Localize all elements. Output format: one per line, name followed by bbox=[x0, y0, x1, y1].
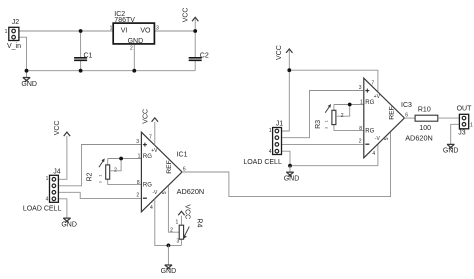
svg-text:5: 5 bbox=[384, 137, 390, 140]
svg-text:RG: RG bbox=[143, 154, 152, 160]
wire J1 pin3 to IC3 -IN pin2 bbox=[282, 143, 364, 145]
wire J4 pin4 to GND bbox=[58, 199, 67, 218]
svg-text:1: 1 bbox=[360, 99, 363, 105]
VCC symbol above IC1 bbox=[142, 109, 158, 124]
svg-text:REF: REF bbox=[166, 160, 173, 174]
node dot J1 ground bbox=[288, 164, 292, 168]
VCC symbol above J1 bbox=[276, 45, 293, 70]
svg-text:VCC: VCC bbox=[142, 109, 149, 124]
op-amp IC1 AD620N triangle bbox=[136, 132, 204, 212]
node RG junction dot R3 bbox=[348, 103, 352, 107]
svg-text:2: 2 bbox=[341, 113, 344, 119]
svg-text:GND: GND bbox=[284, 175, 300, 182]
svg-text:8: 8 bbox=[137, 180, 140, 186]
svg-text:1: 1 bbox=[138, 153, 141, 159]
svg-text:4: 4 bbox=[46, 197, 49, 203]
svg-text:RG: RG bbox=[143, 182, 152, 188]
ground symbol under J1 bbox=[284, 166, 300, 183]
svg-text:2: 2 bbox=[136, 193, 139, 199]
trimmer R3 bbox=[315, 104, 350, 131]
wire J4 pin1 to VCC bbox=[58, 136, 67, 179]
svg-text:J2: J2 bbox=[12, 19, 20, 26]
svg-text:IC3: IC3 bbox=[401, 102, 412, 109]
svg-text:2: 2 bbox=[359, 139, 362, 145]
node RG junction dot R2 bbox=[119, 157, 123, 161]
wire R3 top to IC3 RG pin1 bbox=[334, 104, 364, 106]
svg-text:1: 1 bbox=[176, 219, 179, 225]
connector J4 bbox=[46, 168, 61, 202]
svg-text:3: 3 bbox=[359, 85, 362, 91]
svg-text:VCC: VCC bbox=[182, 8, 189, 23]
svg-text:RG: RG bbox=[365, 100, 374, 106]
op-amp IC3 AD620N triangle bbox=[359, 78, 433, 158]
ground symbol under J2 bbox=[21, 71, 37, 88]
connector J3 bbox=[457, 106, 473, 137]
connector J2 bbox=[5, 19, 20, 40]
svg-text:LOAD CELL: LOAD CELL bbox=[23, 206, 62, 213]
svg-text:3: 3 bbox=[325, 127, 329, 129]
svg-text:IC1: IC1 bbox=[177, 152, 188, 159]
wire VCC to IC3 pin7 +V bbox=[289, 70, 378, 92]
svg-text:LOAD CELL: LOAD CELL bbox=[243, 159, 282, 166]
svg-text:1: 1 bbox=[98, 175, 102, 177]
svg-text:1: 1 bbox=[46, 176, 49, 182]
node dot VCC J1 bbox=[287, 68, 291, 72]
svg-text:VCC: VCC bbox=[183, 204, 190, 219]
svg-text:GND: GND bbox=[443, 148, 459, 155]
capacitor C2 bbox=[189, 31, 209, 71]
wire J1 pin1 to VCC node bbox=[282, 70, 290, 131]
svg-text:3: 3 bbox=[98, 181, 102, 183]
svg-text:C1: C1 bbox=[84, 53, 93, 60]
svg-text:7: 7 bbox=[371, 81, 374, 87]
svg-text:AD620N: AD620N bbox=[405, 134, 433, 143]
svg-text:1: 1 bbox=[110, 26, 113, 32]
svg-text:R10: R10 bbox=[418, 107, 431, 114]
svg-text:J3: J3 bbox=[458, 130, 466, 137]
wire J1 pin2 to IC3 +IN pin3 bbox=[282, 91, 364, 138]
wire GND rail to IC3 pin4 -V bbox=[290, 144, 378, 166]
svg-text:AD620N: AD620N bbox=[177, 187, 205, 196]
VCC symbol above J4 bbox=[54, 121, 70, 137]
svg-text:4: 4 bbox=[372, 151, 375, 157]
svg-text:-V: -V bbox=[375, 136, 381, 142]
svg-text:3: 3 bbox=[156, 26, 159, 32]
wire IC1 pin4 -V down bbox=[155, 199, 182, 246]
wire J4 pin2 to IC1 +IN pin3 bbox=[58, 145, 141, 186]
trimmer R4 bbox=[170, 216, 202, 246]
svg-text:R4: R4 bbox=[196, 218, 203, 227]
wire J1 pin4 to GND rail bbox=[282, 151, 291, 166]
svg-text:REF: REF bbox=[388, 106, 395, 120]
svg-text:VCC: VCC bbox=[54, 121, 61, 136]
svg-text:5: 5 bbox=[162, 191, 168, 194]
svg-text:4: 4 bbox=[269, 149, 272, 155]
svg-text:J4: J4 bbox=[53, 168, 61, 175]
wire GND rail bottom bbox=[27, 70, 196, 72]
svg-text:786TV: 786TV bbox=[114, 17, 135, 24]
svg-text:6: 6 bbox=[405, 113, 408, 119]
wire R10 to J3 pin2 (net OUT) bbox=[438, 117, 460, 119]
svg-text:GND: GND bbox=[61, 221, 77, 228]
svg-text:7: 7 bbox=[149, 135, 152, 141]
svg-text:VI: VI bbox=[121, 28, 128, 35]
wire IC3 output pin6 to R10 bbox=[404, 117, 415, 119]
svg-text:8: 8 bbox=[359, 126, 362, 132]
svg-text:-V: -V bbox=[152, 190, 158, 196]
wire IC1 output pin6 to IC3 REF pin5 bbox=[182, 132, 391, 197]
wire IC2 VO to VCC node bbox=[154, 30, 195, 32]
wire J2 pin1 to IC2 VI (net V_in) bbox=[19, 30, 113, 32]
resistor R10 100 bbox=[415, 107, 438, 133]
svg-text:3: 3 bbox=[177, 238, 180, 244]
wire R2 top to IC1 RG pin1 bbox=[108, 158, 142, 160]
connector J1 bbox=[269, 120, 283, 154]
trimmer R2 bbox=[86, 158, 121, 184]
VCC symbol above R4 bbox=[178, 204, 190, 219]
wire IC1 pin7 to VCC bbox=[154, 122, 156, 146]
wire J2 pin2 to GND rail bbox=[19, 37, 27, 70]
svg-text:1: 1 bbox=[325, 120, 329, 122]
svg-text:R3: R3 bbox=[315, 120, 322, 129]
svg-text:V_in: V_in bbox=[7, 43, 21, 50]
svg-text:2: 2 bbox=[130, 45, 133, 51]
voltage regulator IC2 786TV bbox=[110, 11, 159, 52]
svg-text:RG: RG bbox=[365, 128, 374, 134]
wire J4 pin3 to IC1 -IN pin2 bbox=[58, 192, 141, 198]
svg-text:4: 4 bbox=[150, 205, 153, 211]
capacitor C1 bbox=[74, 31, 92, 71]
svg-text:OUT: OUT bbox=[457, 106, 473, 113]
node dot IC1 ground junction bbox=[167, 244, 171, 248]
svg-text:J1: J1 bbox=[276, 120, 284, 127]
svg-text:VO: VO bbox=[140, 28, 151, 35]
wire R2 bottom to IC1 RG pin8 bbox=[108, 184, 142, 186]
wire J3 pin1 to GND bbox=[451, 124, 460, 144]
svg-text:+V: +V bbox=[374, 94, 381, 100]
VCC symbol top (output of regulator) bbox=[182, 8, 198, 31]
svg-text:C2: C2 bbox=[200, 52, 209, 59]
svg-text:VCC: VCC bbox=[276, 45, 283, 60]
ground symbol under IC1/R4 bbox=[161, 245, 177, 275]
svg-text:GND: GND bbox=[128, 38, 144, 45]
svg-text:2: 2 bbox=[114, 168, 117, 174]
svg-text:1: 1 bbox=[269, 128, 272, 134]
ground symbol under J3 bbox=[443, 144, 459, 154]
svg-text:1: 1 bbox=[5, 29, 8, 35]
svg-text:R2: R2 bbox=[86, 172, 93, 181]
svg-text:1: 1 bbox=[470, 122, 473, 128]
wire IC1 pin5 REF to R4 wiper bbox=[168, 186, 179, 232]
svg-text:3: 3 bbox=[136, 139, 139, 145]
svg-text:+V: +V bbox=[151, 148, 158, 154]
wire IC2 GND pin 2 down bbox=[133, 44, 135, 71]
junction dots power section bbox=[79, 29, 83, 33]
svg-text:GND: GND bbox=[21, 81, 37, 88]
wire R3 bottom to IC3 RG pin8 bbox=[334, 130, 364, 132]
ground symbol under J4 bbox=[61, 218, 77, 228]
svg-text:100: 100 bbox=[419, 125, 431, 132]
svg-text:2: 2 bbox=[170, 227, 173, 233]
svg-text:GND: GND bbox=[161, 268, 177, 275]
